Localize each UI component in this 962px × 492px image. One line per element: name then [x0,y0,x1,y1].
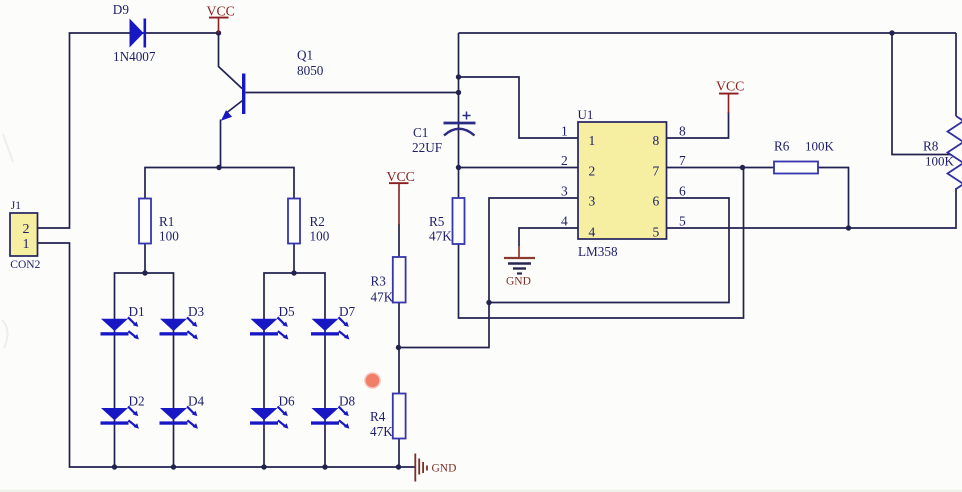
svg-text:R8: R8 [923,139,939,154]
svg-text:D1: D1 [129,304,145,319]
svg-text:1: 1 [589,133,596,148]
svg-text:8050: 8050 [297,63,324,78]
svg-text:1: 1 [23,237,30,252]
svg-text:R3: R3 [371,274,387,289]
svg-text:R5: R5 [429,214,445,229]
svg-text:LM358: LM358 [578,244,618,259]
svg-text:VCC: VCC [387,169,415,184]
svg-text:R4: R4 [370,409,386,424]
svg-text:47K: 47K [429,229,452,244]
svg-text:8: 8 [653,133,660,148]
svg-text:100: 100 [159,229,179,244]
svg-text:VCC: VCC [716,79,744,94]
svg-text:7: 7 [679,153,686,168]
svg-text:100: 100 [310,229,330,244]
svg-text:2: 2 [589,164,596,179]
svg-text:22UF: 22UF [412,140,442,155]
svg-text:D5: D5 [279,304,296,319]
svg-text:47K: 47K [371,290,394,305]
svg-text:1N4007: 1N4007 [113,49,156,64]
svg-text:GND: GND [432,463,457,475]
svg-text:47K: 47K [370,424,393,439]
svg-text:C1: C1 [413,125,428,140]
svg-text:1: 1 [561,124,568,139]
svg-text:D6: D6 [279,394,296,409]
svg-text:U1: U1 [578,107,594,122]
svg-text:3: 3 [561,184,568,199]
svg-text:D7: D7 [339,304,356,319]
svg-text:6: 6 [653,194,660,209]
svg-text:4: 4 [561,214,568,229]
svg-text:R1: R1 [159,214,174,229]
svg-text:R2: R2 [310,214,325,229]
svg-text:2: 2 [561,153,568,168]
svg-text:8: 8 [679,124,686,139]
svg-text:100K: 100K [925,154,955,169]
svg-text:2: 2 [23,222,30,237]
svg-text:4: 4 [589,225,596,240]
svg-text:D3: D3 [188,304,205,319]
svg-text:VCC: VCC [207,4,235,19]
svg-text:Q1: Q1 [297,48,313,63]
svg-text:3: 3 [589,194,596,209]
svg-text:5: 5 [653,225,660,240]
svg-text:J1: J1 [11,200,21,212]
svg-text:D4: D4 [188,394,205,409]
svg-text:100K: 100K [805,139,835,154]
svg-text:GND: GND [506,276,531,288]
svg-text:6: 6 [679,184,686,199]
svg-text:R6: R6 [774,139,790,154]
svg-text:7: 7 [653,164,660,179]
svg-text:D8: D8 [339,394,356,409]
svg-text:CON2: CON2 [10,259,40,271]
svg-text:5: 5 [679,214,686,229]
svg-text:D9: D9 [113,2,130,17]
svg-text:D2: D2 [129,394,145,409]
